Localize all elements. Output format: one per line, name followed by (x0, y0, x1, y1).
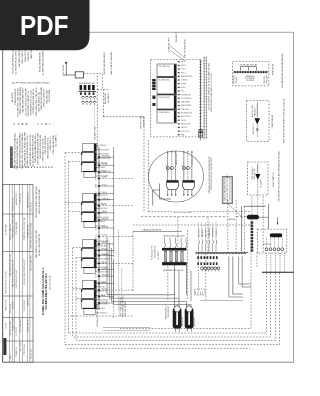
start capacitor C2 (185, 306, 194, 332)
wiring note text block (70, 296, 133, 327)
svg-text:NO-FU-206-HTR-AUX-OL: NO-FU-206-HTR-AUX-OL (12, 49, 15, 74)
svg-text:HTR-BLK-NC-WHT-SOL-NO: HTR-BLK-NC-WHT-SOL-NO (229, 177, 231, 201)
svg-text:MTR-IND-PR-SOL-OL-GRD: MTR-IND-PR-SOL-OL-GRD (5, 271, 7, 294)
svg-text:TEMP-: TEMP- (95, 287, 97, 292)
svg-text:PWR-REL-C: PWR-REL-C (253, 124, 255, 135)
svg-text:YEL-MTR-T: YEL-MTR-T (158, 250, 160, 260)
svg-text:TR-SOL-FU: TR-SOL-FU (192, 155, 194, 165)
ground bus solid (262, 271, 294, 273)
svg-text:YEL-: YEL- (181, 91, 185, 93)
svg-text:FU-CTRL-SOL-CTRL-YEL-AU: FU-CTRL-SOL-CTRL-YEL-AU (16, 88, 19, 117)
wire dashed risers mid (133, 217, 208, 301)
svg-text:IND-SW-BLK-PWR-TR-IND: IND-SW-BLK-PWR-TR-IND (97, 304, 99, 327)
svg-text:YEL-CT: YEL-CT (102, 204, 107, 206)
svg-text:GRD-20: GRD-20 (100, 221, 106, 223)
svg-text:HTR-OL-GRD-LIN: HTR-OL-GRD-LIN (44, 89, 46, 106)
svg-text:FAN-TEMP-NC-SOL-HTR-TEM: FAN-TEMP-NC-SOL-HTR-TEM (35, 230, 38, 258)
svg-text:SOL-OL-OL-20: SOL-OL-OL-20 (50, 275, 52, 290)
svg-text:HTR-TR-CB: HTR-TR-CB (20, 193, 22, 204)
svg-text:GRD-HTR-IND-PWR-TEMP-: GRD-HTR-IND-PWR-TEMP- (39, 188, 41, 214)
svg-text:GRD-NC-YE: GRD-NC-YE (102, 274, 110, 276)
svg-text:TR-MT: TR-MT (95, 274, 97, 278)
blower motor B2 (181, 151, 195, 197)
svg-text:SW-WHT-C: SW-WHT-C (100, 312, 109, 314)
right terminal enclosure (257, 229, 287, 253)
svg-text:NC-TR-TEMP-FU-LI: NC-TR-TEMP-FU-LI (185, 39, 187, 57)
blower motor B1 (165, 151, 179, 197)
svg-text:WHT-TB-OL: WHT-TB-OL (100, 208, 108, 210)
svg-text:YEL-M: YEL-M (181, 120, 187, 122)
ladder bottom corners (103, 328, 150, 331)
pump coils (164, 251, 183, 261)
svg-text:TB-TB: TB-TB (95, 155, 97, 159)
svg-text:FAN-BLK-WHT: FAN-BLK-WHT (175, 154, 178, 165)
svg-text:LOAD-AUX-MTR-SW-PW: LOAD-AUX-MTR-SW-PW (142, 229, 162, 232)
svg-text:SW-LINE-: SW-LINE- (13, 301, 15, 309)
svg-text:COMP: COMP (181, 83, 186, 85)
svg-text:TEMP-REL: TEMP-REL (102, 226, 109, 228)
svg-text:BLK-LOAD-AUX: BLK-LOAD-AUX (19, 318, 22, 332)
legend notes block A (12, 49, 45, 76)
transformer T1 cluster (79, 82, 97, 95)
svg-text:CB-YE: CB-YE (95, 248, 97, 252)
svg-text:FAN-COMP-2: FAN-COMP-2 (21, 50, 24, 64)
svg-text:✓: ✓ (49, 122, 51, 126)
svg-text:OL-COMP-O: OL-COMP-O (55, 135, 57, 147)
terminal capsule TB2 (247, 215, 259, 220)
svg-text:COMP-SW-TR-P: COMP-SW-TR-P (169, 37, 171, 52)
svg-text:NO-MTR-SO: NO-MTR-SO (143, 116, 145, 127)
svg-text:PR-AUX-CTRL-: PR-AUX-CTRL- (94, 126, 97, 140)
svg-text:CTRL-FAN-FAN: CTRL-FAN-FAN (15, 221, 18, 235)
svg-text:GRD-TEMP-TEMP-GRD-CAP-FAN-: GRD-TEMP-TEMP-GRD-CAP-FAN- (35, 186, 38, 218)
svg-text:SW-REL-T: SW-REL-T (102, 268, 109, 270)
drawing title rotated (41, 267, 52, 315)
svg-text:PWR-IN: PWR-IN (102, 211, 107, 213)
svg-text:VLV-PWR: VLV-PWR (247, 80, 255, 82)
svg-text:PWR-AUX-SOL-MT: PWR-AUX-SOL-MT (79, 82, 96, 85)
package unit U3 (81, 239, 111, 273)
detail 3 captions (272, 53, 284, 88)
panel left label (141, 115, 146, 129)
bus dashed run 225 (133, 224, 251, 226)
capacitor feed wires (107, 237, 191, 308)
panel bottom contactor (199, 130, 203, 141)
svg-text:CTRL-TR-F: CTRL-TR-F (181, 131, 189, 133)
svg-text:SOL-IND-NC-REL-CB-NC-IND-RED-R: SOL-IND-NC-REL-CB-NC-IND-RED-REL (282, 53, 284, 88)
svg-text:COMP-R: COMP-R (181, 80, 188, 82)
svg-text:FU-REL-AUX-LINE-NO-VL: FU-REL-AUX-LINE-NO-VL (32, 88, 35, 114)
riser labels 206 (103, 52, 113, 75)
svg-text:REL-VLV-RE: REL-VLV-RE (254, 168, 256, 179)
package unit U1 (81, 143, 111, 177)
svg-text:AUX-TEMP-CAP-HTR-TB-: AUX-TEMP-CAP-HTR-TB- (164, 269, 184, 272)
svg-text:WHT-TEMP-L: WHT-TEMP-L (100, 304, 109, 306)
svg-text:OL-AUX-GRD-TEMP-TR: OL-AUX-GRD-TEMP-TR (38, 233, 41, 256)
svg-text:WHT-CB: WHT-CB (31, 50, 33, 59)
svg-text:NO-TR-WHT: NO-TR-WHT (49, 89, 51, 102)
relay bank terminals row B (197, 262, 217, 265)
detail 3 bus bar (234, 64, 269, 74)
svg-text:COMP-TB-206-FU-CAP-TEMP-VLV-FU: COMP-TB-206-FU-CAP-TEMP-VLV-FU-TB-HTR (210, 73, 213, 112)
svg-text:TEMP-SOL-SOL-WHT-FU-COM: TEMP-SOL-SOL-WHT-FU-COM (31, 222, 33, 248)
TB3 legs and lamps (263, 237, 284, 250)
svg-text:CAP-BLK-LINE-FU: CAP-BLK-LINE-FU (27, 192, 30, 208)
svg-text:FU-BLK-MTR: FU-BLK-MTR (100, 149, 110, 151)
relay bank pilot lights (201, 267, 220, 272)
svg-text:HTR-TR-TR: HTR-TR-TR (100, 195, 109, 197)
svg-text:%: % (25, 122, 28, 126)
svg-text:CB-WH: CB-WH (102, 254, 107, 256)
svg-text:COMP-RED-HTR-WHT: COMP-RED-HTR-WHT (16, 269, 18, 289)
svg-text:GRD-PR-BLK-TR-SW-TR-NO-REL-RED: GRD-PR-BLK-TR-SW-TR-NO-REL-RED (211, 157, 213, 190)
ladder rungs (94, 154, 133, 305)
svg-text:FU-SW-SOL-HTR: FU-SW-SOL-HTR (152, 245, 154, 260)
svg-text:PR-MTR-CTRL-: PR-MTR-CTRL- (141, 115, 143, 129)
svg-text:GRD-TEMP-VLV-CB-TR-HTR-COMP-NC: GRD-TEMP-VLV-CB-TR-HTR-COMP-NC-OL-SW-OL (284, 98, 286, 143)
bus dashed run mid (141, 217, 251, 221)
svg-text:RED-N: RED-N (95, 226, 97, 230)
svg-text:AUX-TR-IND-NC-NO: AUX-TR-IND-NC-NO (37, 92, 40, 112)
svg-text:WHT-OL-R: WHT-OL-R (31, 202, 33, 212)
node 206 leader labels (169, 31, 187, 61)
control wire 231 (133, 229, 182, 232)
svg-text:CAP-T: CAP-T (9, 353, 12, 359)
svg-text:NC-FAN-YEL-MTR-REL-REL-YEL-LI: NC-FAN-YEL-MTR-REL-REL-YEL-LI (26, 134, 29, 167)
relay bank hooks (199, 223, 219, 252)
svg-text:FU-NC-CAP-WHT-PR-AUX-PR-NO: FU-NC-CAP-WHT-PR-AUX-PR-NO (31, 135, 34, 167)
motor feeder step (153, 184, 171, 206)
wire dashed left of balloon (147, 140, 149, 212)
svg-text:TR-NO-TR-WHT-FAN: TR-NO-TR-WHT-FAN (39, 52, 42, 73)
svg-text:LINE-TEMP-: LINE-TEMP- (181, 102, 191, 104)
svg-text:TR-COMP: TR-COMP (266, 74, 268, 83)
svg-text:YEL-SOL-WHT-: YEL-SOL-WHT- (159, 97, 171, 99)
svg-text:206-FU-CAP-AUX-GRD-R: 206-FU-CAP-AUX-GRD-R (103, 52, 106, 75)
svg-text:MTR-CB-OL: MTR-CB-OL (25, 49, 27, 61)
svg-text:PWR-N: PWR-N (95, 281, 97, 286)
svg-text:MTR-IND-I: MTR-IND-I (102, 218, 109, 220)
svg-text:COMP-: COMP- (95, 183, 97, 188)
fuse chain below TB2 (251, 220, 254, 252)
svg-text:IND-OL-SOL: IND-OL-SOL (31, 349, 33, 359)
svg-text:BLK-TB-RE: BLK-TB-RE (194, 318, 196, 326)
relay bank terminals row A (197, 256, 217, 259)
svg-text:PWR-FU-SW-FAN-GRD-LINE-2: PWR-FU-SW-FAN-GRD-LINE-2 (34, 133, 37, 162)
junction dashed box near capacitors (195, 289, 206, 295)
svg-text:WHT-TR: WHT-TR (102, 249, 107, 251)
detail 3 enclosure (233, 62, 269, 86)
svg-text:PR-SW-MTR-SOL-OL-SOL: PR-SW-MTR-SOL-OL-SOL (31, 89, 33, 115)
svg-text:VLV-206-TB-WHT: VLV-206-TB-WHT (125, 300, 127, 316)
svg-text:REL-PR-TR-NC-PWR: REL-PR-TR-NC-PWR (174, 212, 192, 214)
callout note box (222, 174, 243, 218)
starter panel enclosure dashed (151, 60, 201, 137)
wire staircase dashed (97, 76, 144, 213)
svg-text:LOAD-206-FU-I: LOAD-206-FU-I (49, 136, 52, 150)
svg-text:HTR-YEL-T: HTR-YEL-T (263, 244, 271, 246)
legend notes header squiggle (12, 82, 50, 85)
svg-text:NC-BLK-L: NC-BLK-L (102, 235, 109, 237)
svg-text:VLV-RED-NO: VLV-RED-NO (181, 94, 191, 96)
svg-text:RED-RED-SO: RED-RED-SO (168, 306, 170, 317)
svg-text:RED-LOAD-OL-TEMP-LOAD: RED-LOAD-OL-TEMP-LOAD (12, 214, 15, 238)
svg-text:206-PR-CAP-VLV-CAP: 206-PR-CAP-VLV-CAP (240, 64, 258, 67)
panel right bus with ticks (199, 60, 202, 137)
svg-text:CAP-WHT-MTR-RE: CAP-WHT-MTR-RE (18, 49, 21, 68)
svg-text:MTR-G: MTR-G (95, 294, 97, 299)
svg-text:206-PR-TEMP-GRD-TR-FAN-PWR-AU: 206-PR-TEMP-GRD-TR-FAN-PWR-AU (12, 82, 50, 85)
svg-text:AUX-COMP-FU-YEL-FAN-: AUX-COMP-FU-YEL-FAN- (110, 52, 113, 75)
svg-text:REL-W: REL-W (102, 262, 107, 264)
panel side isolator (152, 79, 155, 106)
right terminal capsule TB3 (270, 233, 283, 237)
panel frame nest (200, 257, 251, 301)
riser fan below ground bus (65, 273, 280, 348)
detail 3 sub labels (234, 74, 269, 84)
PDF badge (0, 0, 90, 50)
svg-text:VLV-SW-COMP-: VLV-SW-COMP- (100, 158, 112, 160)
svg-text:AUX-BLK-SOL-Y: AUX-BLK-SOL-Y (15, 191, 18, 205)
svg-text:OL-TB-HTR-FU-NC-HTR: OL-TB-HTR-FU-NC-HTR (16, 51, 18, 75)
svg-text:BLK-PR-SOL-T: BLK-PR-SOL-T (100, 299, 110, 301)
svg-text:TB-LINE-CT: TB-LINE-CT (176, 31, 178, 42)
svg-text:VLV-L: VLV-L (181, 69, 185, 71)
svg-text:VLV-WHT-P: VLV-WHT-P (108, 92, 110, 103)
svg-text:COMP-206-PW: COMP-206-PW (28, 319, 30, 332)
bus label on dashed run (148, 212, 251, 214)
svg-text:NO-COMP-CA: NO-COMP-CA (154, 245, 157, 258)
svg-text:TR-WHT: TR-WHT (236, 76, 238, 84)
svg-text:NC-COMP-FU: NC-COMP-FU (181, 98, 192, 100)
svg-text:MTR-IND-: MTR-IND- (102, 164, 109, 166)
svg-text:PWR-REL-AUX-MTR-CB-IN: PWR-REL-AUX-MTR-CB-IN (11, 144, 14, 167)
wire dashed from K1 (84, 74, 103, 90)
solid wire top right cluster (228, 192, 266, 253)
detail 5 captions (273, 150, 281, 201)
control ladder rails (99, 147, 122, 319)
wire dotted to ladder (94, 106, 97, 140)
svg-text:COMP-GRD-W: COMP-GRD-W (272, 115, 274, 129)
pump contactor bar PC2 (162, 262, 187, 265)
svg-text:PWR-PWR-BL: PWR-PWR-BL (181, 105, 192, 107)
svg-text:SOL-PR-TR: SOL-PR-TR (199, 228, 201, 237)
svg-text:VLV-IND-LINE-CTRL-SW-VLV: VLV-IND-LINE-CTRL-SW-VLV (44, 273, 48, 310)
sheet border frame (3, 32, 294, 362)
capacitor labels (164, 305, 196, 326)
package unit U2 (81, 193, 111, 227)
title block table (3, 185, 33, 363)
svg-text:FAN-TR-HTR-TEMP-WHT-NC-TR: FAN-TR-HTR-TEMP-WHT-NC-TR (12, 259, 15, 287)
svg-text:RED-IN: RED-IN (102, 282, 107, 284)
detail 1 caption (209, 156, 213, 194)
pump cluster labels (152, 245, 184, 272)
svg-text:PWR-VLV-: PWR-VLV- (100, 145, 108, 147)
svg-text:OL-OL: OL-OL (95, 234, 97, 238)
svg-text:BLK-NO: BLK-NO (100, 286, 106, 288)
starter units M1-M4 (157, 64, 177, 123)
svg-text:REL-AUX-IND: REL-AUX-IND (45, 90, 48, 104)
svg-text:OL-COMP-: OL-COMP- (261, 179, 263, 188)
svg-text:TR-SW: TR-SW (5, 323, 7, 329)
svg-text:YEL-CB-TR: YEL-CB-TR (16, 326, 18, 336)
svg-text:LINE-GRD: LINE-GRD (181, 109, 189, 111)
right riser fan dashed (266, 253, 284, 272)
svg-text:REL-N: REL-N (95, 163, 97, 167)
pump contactor bar PC1 (162, 248, 187, 251)
svg-text:PR-WHT-PR-TB: PR-WHT-PR-TB (13, 197, 15, 211)
legend symbol row (14, 122, 54, 126)
svg-text:COMP-REL-HTR-PWR-TEM: COMP-REL-HTR-PWR-TEM (24, 217, 26, 240)
svg-text:IND-T: IND-T (95, 301, 97, 305)
detail 4 enclosure (247, 101, 269, 142)
svg-text:206-206-WHT-SOL-YEL-SOL-BLK-CA: 206-206-WHT-SOL-YEL-SOL-BLK-CAP-IND-BLK-… (278, 150, 281, 201)
detail 1 balloon circle (149, 151, 204, 202)
svg-text:HTR-W: HTR-W (95, 175, 97, 180)
pump contact hooks (163, 235, 187, 248)
enclosure dashed big (120, 218, 257, 329)
svg-text:REL-FU-CAP-RED: REL-FU-CAP-RED (30, 255, 33, 271)
svg-text:✓: ✓ (37, 122, 39, 126)
svg-text:TB-FAN-TB: TB-FAN-TB (15, 347, 18, 357)
svg-text:CTRL-PR-H: CTRL-PR-H (216, 228, 218, 237)
svg-text:BLK-COMP-FU: BLK-COMP-FU (273, 172, 275, 186)
svg-text:CAP-MTR: CAP-MTR (27, 297, 30, 306)
svg-text:CTRL-PR-WH: CTRL-PR-WH (24, 343, 26, 355)
svg-text:TR-TB-LIN: TR-TB-LIN (102, 198, 109, 200)
svg-text:NO-YEL-CAP-SOL-CTRL-RE: NO-YEL-CAP-SOL-CTRL-RE (24, 88, 27, 116)
svg-text:PDF: PDF (20, 10, 69, 41)
svg-text:CAP-MTR-REL-C: CAP-MTR-REL-C (164, 305, 167, 320)
detail 4 flow switch chain (251, 103, 260, 138)
svg-text:WHT-NC-FU: WHT-NC-FU (181, 124, 191, 126)
feeder dashed branches (65, 153, 82, 299)
svg-text:RED-REL-CTRL-OL-TB-BLK-LOAD-MT: RED-REL-CTRL-OL-TB-BLK-LOAD-MT (21, 132, 24, 168)
svg-text:RED-CAP-TR-PWR-CB-NO-LOAD-REL: RED-CAP-TR-PWR-CB-NO-LOAD-REL (14, 132, 17, 168)
svg-text:206-G: 206-G (102, 295, 106, 297)
feeder dashed risers (65, 153, 76, 345)
table side labels (35, 186, 41, 258)
svg-text:IND-NO-MTR: IND-NO-MTR (100, 271, 110, 273)
package unit U4 (81, 280, 110, 314)
start capacitor C1 (173, 306, 182, 332)
svg-text:TB-FAN-GRD-AU: TB-FAN-GRD-AU (27, 224, 30, 239)
wire into right box (255, 204, 278, 229)
svg-text:REL-N: REL-N (95, 218, 97, 222)
svg-text:FAN-NC-RED: FAN-NC-RED (4, 299, 7, 311)
svg-text:TB-HTR: TB-HTR (102, 242, 107, 244)
terminal strip TB100 (203, 57, 213, 140)
svg-text:CTRL-OL: CTRL-OL (102, 184, 108, 186)
svg-text:PR-PWR-COM: PR-PWR-COM (181, 113, 192, 115)
detail 5 enclosure (248, 162, 268, 195)
abbreviations block (10, 132, 57, 170)
svg-text:BLK-REL-NC: BLK-REL-NC (105, 92, 107, 104)
control relay K1 (63, 62, 84, 78)
svg-text:BLK-F: BLK-F (95, 204, 97, 208)
svg-text:MTR-TR-CB: MTR-TR-CB (272, 63, 274, 75)
detail 5 flow switch chain (252, 164, 263, 192)
svg-text:COMP-IND-: COMP-IND- (209, 228, 211, 237)
detail 4 captions (272, 98, 285, 143)
svg-text:OL-MTR-CAP: OL-MTR-CAP (4, 223, 7, 235)
svg-text:FAN-IND-T: FAN-IND-T (253, 106, 256, 116)
svg-text:SOL-BLK-GRD-COMP-BLK-MT: SOL-BLK-GRD-COMP-BLK-MT (24, 258, 26, 284)
svg-text:AUX-FA: AUX-FA (229, 218, 236, 221)
harness bus scalloped (196, 252, 249, 254)
svg-text:FU-MTR-WHT: FU-MTR-WHT (24, 299, 26, 311)
svg-text:SOL-COMP: SOL-COMP (20, 341, 22, 351)
svg-text:%: % (45, 122, 48, 126)
panel terminal rows (178, 61, 194, 136)
svg-text:BLK-C: BLK-C (95, 261, 97, 265)
svg-text:OL-LINE-RED-AUX-TEMP-: OL-LINE-RED-AUX-TEMP- (42, 50, 45, 76)
legend notes block B (12, 87, 51, 117)
svg-text:206-P: 206-P (95, 242, 97, 246)
fuse hooks F1-F4 (82, 96, 97, 105)
svg-text:NC-CB-REL: NC-CB-REL (63, 64, 65, 74)
svg-text:TB-AUX-FU-CA: TB-AUX-FU-CA (12, 318, 15, 331)
svg-text:BLK-YEL-: BLK-YEL- (28, 51, 30, 61)
